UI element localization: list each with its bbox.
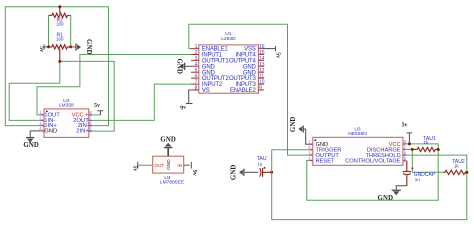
svg-text:ENABLE2: ENABLE2 bbox=[230, 88, 256, 94]
voltage regulator U4 LM7805EE bbox=[153, 156, 185, 185]
svg-text:GND: GND bbox=[230, 164, 237, 180]
node junction VCC 5v bbox=[408, 142, 411, 145]
ground above U4 bbox=[160, 136, 176, 156]
svg-text:9v: 9v bbox=[191, 170, 197, 176]
svg-text:1u: 1u bbox=[415, 177, 421, 182]
svg-text:OUT: OUT bbox=[154, 163, 164, 168]
capacitor TAU bbox=[244, 156, 272, 177]
U2 pin stubs left bbox=[39, 110, 44, 132]
ground right of R1 bbox=[71, 39, 92, 55]
wire TRIGGER to TAU node and bottom rail to THRESHOLD net bbox=[272, 150, 467, 220]
resistor R2 bbox=[49, 7, 71, 27]
node junction on top rail bbox=[58, 5, 61, 8]
svg-text:LM7805EE: LM7805EE bbox=[160, 179, 185, 185]
svg-text:GND: GND bbox=[23, 142, 39, 149]
power 9v at U1 VS bbox=[180, 90, 193, 112]
wire net top-left: top rail to U2 1IN+ and 2IN- bbox=[5, 7, 108, 126]
resistor TAU2 bbox=[444, 159, 467, 175]
node junction TAU2 right bbox=[465, 171, 468, 174]
svg-text:GND: GND bbox=[166, 159, 171, 170]
power 5v at U3 VCC bbox=[402, 123, 413, 144]
svg-text:GND: GND bbox=[175, 58, 182, 74]
node junction DISCHARGE bbox=[411, 148, 414, 151]
svg-text:GND: GND bbox=[160, 136, 176, 143]
ground at U2 GND pin bbox=[23, 131, 40, 149]
svg-text:1k: 1k bbox=[423, 140, 429, 145]
power 9v at U4 IN bbox=[184, 162, 197, 176]
svg-text:RESET: RESET bbox=[316, 159, 335, 165]
svg-text:5v: 5v bbox=[94, 103, 100, 109]
ground below GNDCAP bbox=[378, 186, 407, 202]
wire R2 right end down to R1 right bbox=[70, 15, 72, 47]
svg-text:1u: 1u bbox=[257, 161, 263, 166]
U3 pin stubs left bbox=[308, 140, 313, 162]
ground at U1 pin4 bbox=[175, 58, 191, 74]
power 5v at U1 VSS bbox=[263, 46, 280, 58]
svg-text:9: 9 bbox=[259, 86, 262, 92]
wire net: R1 wiper to U2 1IN- and 2IN+ bbox=[9, 61, 114, 131]
svg-text:NE555N: NE555N bbox=[348, 131, 367, 137]
wire THRESHOLD to TAU2 right bbox=[406, 155, 466, 172]
op-amp U2 LM358 bbox=[44, 98, 89, 137]
power 5v at U4 OUT bbox=[132, 162, 153, 172]
svg-text:8: 8 bbox=[195, 86, 198, 92]
svg-text:GND: GND bbox=[290, 116, 297, 132]
node junction R1 right bbox=[69, 45, 72, 48]
svg-text:GND: GND bbox=[85, 39, 92, 55]
U1 pin stubs and numbers right bbox=[258, 44, 264, 91]
timer U3 NE555N bbox=[313, 126, 403, 165]
wire U1 ENABLE1 to U3 OUTPUT bbox=[189, 24, 310, 155]
resistor R1 bbox=[49, 32, 71, 61]
svg-text:5v: 5v bbox=[132, 166, 138, 172]
resistor TAU1 bbox=[412, 136, 438, 152]
svg-text:9v: 9v bbox=[180, 104, 187, 111]
capacitor GNDCAP bbox=[403, 161, 436, 186]
power 5v at U2 VCC bbox=[92, 103, 103, 115]
svg-text:GND: GND bbox=[44, 129, 57, 135]
svg-text:5v: 5v bbox=[38, 46, 44, 52]
IC U1 L293D bbox=[199, 31, 259, 94]
svg-text:VS: VS bbox=[202, 88, 210, 94]
svg-text:LM358: LM358 bbox=[59, 103, 74, 109]
node junction R1 left bbox=[47, 45, 50, 48]
ground at TAU capacitor bbox=[230, 164, 244, 180]
wire R2 left end down to R1 left bbox=[48, 15, 50, 47]
svg-text:2IN+: 2IN+ bbox=[76, 129, 89, 135]
svg-text:5v: 5v bbox=[402, 123, 408, 129]
svg-text:100: 100 bbox=[56, 22, 64, 27]
node junction TAU right bbox=[270, 171, 273, 174]
U3 pin stubs right bbox=[403, 139, 407, 162]
node junction TAU1 right bbox=[437, 148, 440, 151]
wire RESET to bottom rail to VCC row bbox=[307, 144, 438, 200]
svg-text:L293D: L293D bbox=[221, 36, 236, 42]
svg-text:1k: 1k bbox=[454, 163, 460, 168]
U2 pin stubs right bbox=[89, 110, 93, 132]
svg-text:5v: 5v bbox=[275, 52, 281, 58]
U1 pin stubs and numbers left bbox=[191, 44, 199, 91]
svg-text:CONTROL/VOLTAGE: CONTROL/VOLTAGE bbox=[345, 159, 401, 165]
wire DISCHARGE node down to TAU2 left bbox=[406, 149, 443, 172]
svg-text:IN: IN bbox=[177, 163, 182, 168]
svg-text:GND: GND bbox=[378, 195, 394, 202]
wire U2 1OUT to U1 INPUT1 bbox=[37, 55, 191, 115]
node junction below R1 bbox=[58, 60, 61, 63]
svg-text:100: 100 bbox=[56, 37, 64, 42]
power 5v at R1 left bbox=[38, 44, 49, 52]
wire U2 2OUT to U1 INPUT2 bbox=[92, 84, 191, 120]
ground at U3 GND pin bbox=[290, 116, 310, 144]
